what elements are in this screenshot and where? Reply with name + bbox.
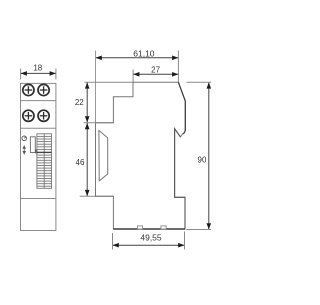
dim 61,10 left extension (front face projection) [95,51,97,123]
timing scale ladder [37,134,52,189]
screw terminal mid-right [38,110,49,121]
dim 49,55 left extension [112,233,114,249]
dim 22 vertical dimension line [86,82,88,122]
screw terminal mid-left [23,110,34,121]
dim 18 dimension line with arrows [21,72,56,74]
clock dial icon [22,136,27,141]
side profile body outline [96,82,186,229]
extension line at top edge level y=82 [85,81,133,83]
svg-text:18: 18 [33,63,42,72]
extension line at step level y=122.7 [84,122,114,124]
screw terminal top-left [23,84,34,95]
dim 90 vertical dimension line [208,82,210,229]
dim 90 top extension [186,81,211,83]
selector slider [30,137,35,153]
bottom rail tab left [138,226,143,229]
slider dark marker [35,149,37,153]
dim 18 extension line right [55,69,57,80]
dim 27 left extension [132,70,134,83]
svg-text:49,55: 49,55 [140,232,162,242]
dim 49,55 dimension line [113,244,185,246]
divider line 2 [21,127,56,129]
divider line 3 [21,198,56,200]
dim 46 vertical dimension line [86,123,88,196]
profile bottom edge darker [113,228,185,230]
profile right edge darker [178,82,185,134]
bottom rail tab right [161,226,166,229]
svg-text:46: 46 [76,158,85,167]
ladder heavy middle rung [37,151,52,153]
dim 49,55 right extension [184,232,186,250]
dim 61,10 / 27 right extension [177,51,179,83]
svg-text:90: 90 [198,155,207,164]
dim 90 bottom extension [186,229,211,231]
svg-text:27: 27 [151,65,160,74]
divider line 1 [21,100,56,102]
dim 27 dimension line [133,73,178,75]
svg-text:22: 22 [75,98,84,107]
toggle lever (side) [99,130,108,181]
front body outline [21,83,56,230]
extension line at lower step level y=196.3 [80,195,114,197]
svg-text:61,10: 61,10 [133,48,155,58]
dim 18 extension line left [20,69,22,80]
profile notch wedge [175,129,185,229]
dim 61,10 dimension line [96,57,179,59]
small vertical double arrow [23,146,25,153]
screw terminal top-right [38,84,49,95]
